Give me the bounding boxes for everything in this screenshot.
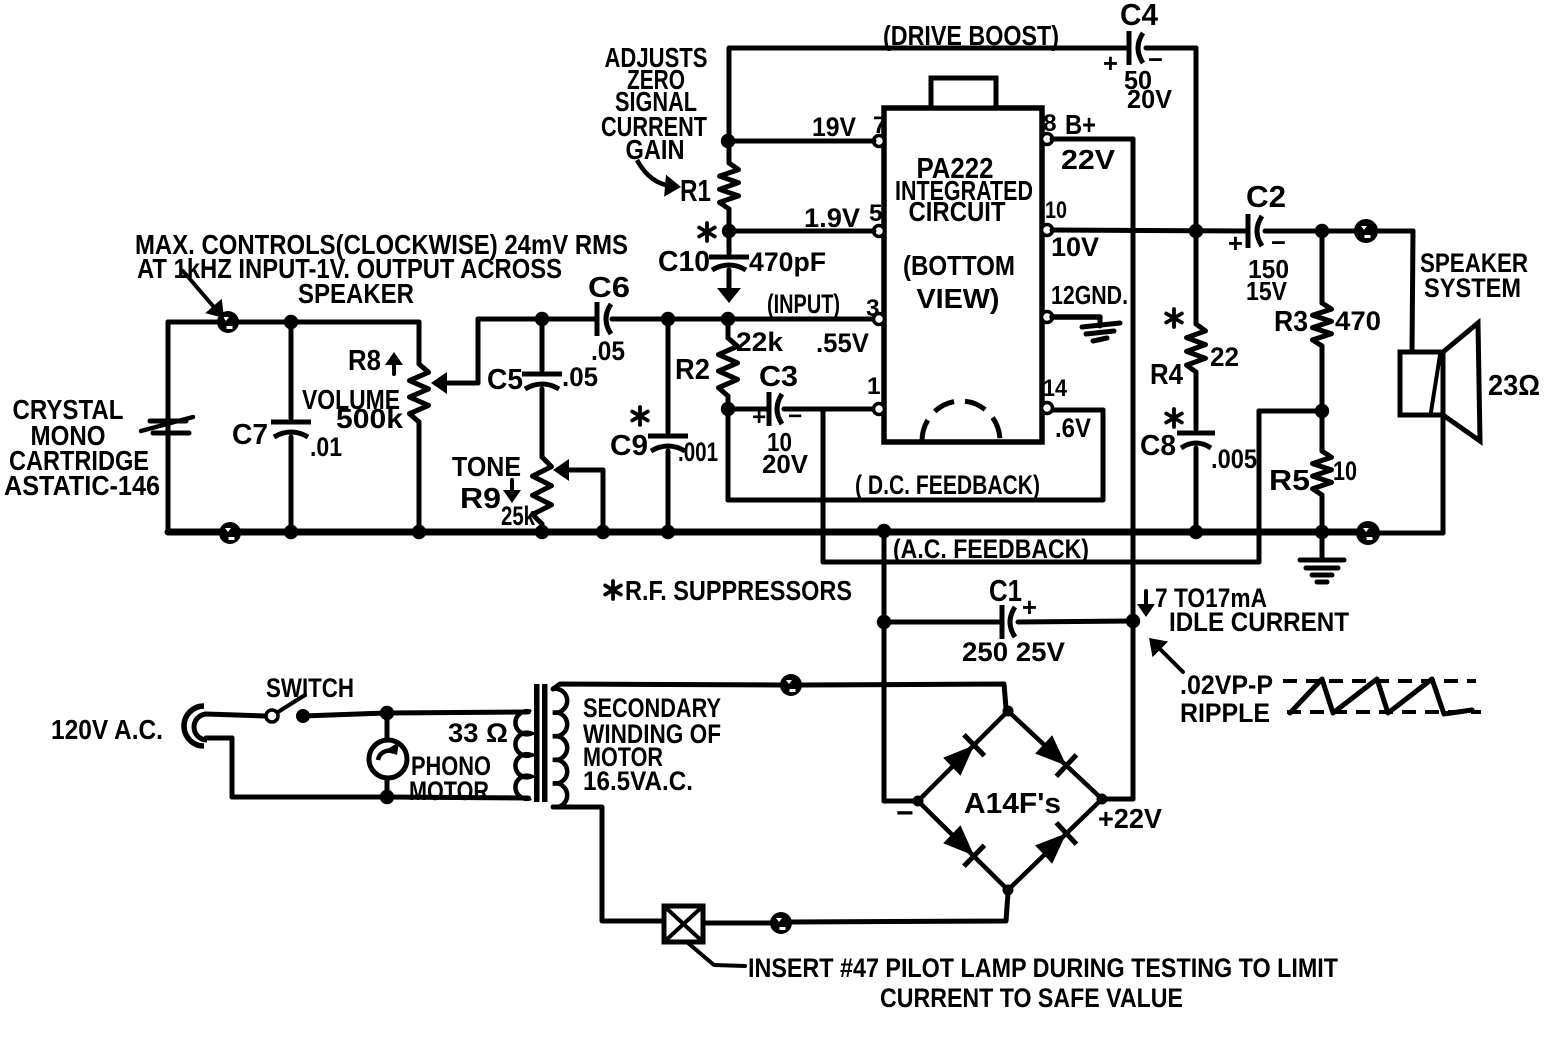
- capacitor C8 .005 (RF suppressor): [1177, 431, 1215, 436]
- svg-text:INSERT #47 PILOT LAMP DURING T: INSERT #47 PILOT LAMP DURING TESTING TO …: [748, 953, 1339, 983]
- capacitor C1 250/25V (series): [884, 620, 999, 625]
- svg-text:.005: .005: [1211, 444, 1257, 474]
- svg-text:10: 10: [1333, 456, 1357, 486]
- wire: bridge plus to B+ vertical: [1102, 797, 1133, 802]
- leader arrow to ripple note: [1155, 644, 1183, 672]
- capacitor C5 .05: [535, 312, 549, 326]
- svg-text:R5: R5: [1269, 465, 1310, 497]
- wire: 19V to pin 7: [728, 139, 874, 144]
- crystal cartridge symbol: [150, 419, 186, 424]
- ground symbol at rail: [1320, 532, 1325, 558]
- diode D3 (left-bottom): [943, 825, 974, 856]
- resistor R2 22k: [726, 319, 731, 338]
- node: C1 right: [1126, 614, 1140, 628]
- capacitor C7: [289, 322, 294, 418]
- resistor R5 10: [1320, 411, 1325, 451]
- potentiometer R9 TONE 25k: [533, 457, 552, 524]
- node: R4/C8 bottom on rail: [1189, 525, 1203, 539]
- svg-text:33 Ω: 33 Ω: [448, 718, 508, 748]
- svg-text:C7: C7: [232, 419, 268, 451]
- svg-text:.001: .001: [678, 437, 718, 467]
- wire: B+ pin 8 right and down to +22V bridge: [1052, 137, 1133, 142]
- svg-text:120V A.C.: 120V A.C.: [51, 714, 163, 745]
- speaker driver and horn: [1400, 352, 1443, 415]
- wire: motor top/bottom stubs: [385, 713, 390, 740]
- wire: bridge minus to left vertical: [884, 799, 918, 804]
- IC bottom index notch (dashed): [922, 401, 1000, 441]
- resistor R3 470: [1320, 231, 1325, 303]
- node: C7 bottom on rail: [284, 525, 298, 539]
- svg-text:C9: C9: [610, 430, 648, 462]
- svg-text:C10: C10: [658, 246, 710, 278]
- node: R1 bottom / 1.9V: [727, 209, 732, 231]
- node: C7 top junction: [284, 315, 298, 329]
- svg-text:.55V: .55V: [816, 328, 869, 358]
- svg-text:SPEAKER: SPEAKER: [298, 278, 414, 309]
- svg-text:C1: C1: [989, 575, 1022, 608]
- bridge corner dots: [1003, 706, 1014, 717]
- svg-text:+: +: [752, 404, 766, 431]
- node: R5 bottom on rail: [1315, 525, 1329, 539]
- svg-text:12GND.: 12GND.: [1051, 282, 1128, 310]
- terminal: speaker return: [1356, 521, 1380, 545]
- svg-text:500k: 500k: [336, 403, 404, 434]
- IC U1 PA222 body: [884, 108, 1042, 442]
- svg-text:C6: C6: [588, 272, 630, 304]
- node: motor top: [380, 706, 394, 720]
- R8 up arrow: [392, 356, 396, 374]
- terminal: AC top: [780, 674, 802, 696]
- svg-text:−: −: [788, 403, 802, 430]
- wire: to speaker: [1378, 229, 1413, 234]
- wire: plug bottom to lower run: [206, 736, 232, 741]
- capacitor C9 .001 (RF suppressor): [661, 312, 675, 326]
- phono motor: [369, 740, 407, 778]
- svg-text:TONE: TONE: [452, 451, 521, 482]
- wire: AC feedback takeoff from pin1 node: [821, 409, 826, 562]
- resistor R1: [720, 163, 739, 209]
- node: drive boost / R1 junction: [721, 134, 735, 148]
- svg-text:8: 8: [1043, 110, 1057, 137]
- svg-text:−: −: [1271, 229, 1286, 257]
- svg-text:.01: .01: [310, 432, 342, 462]
- capacitor C2 150/15V (series): [1246, 214, 1251, 248]
- transformer core: [534, 684, 540, 802]
- curved arrow to R1: [637, 160, 672, 186]
- svg-text:14: 14: [1043, 375, 1067, 402]
- capacitor C10 470pF with arrow to input: [727, 231, 732, 253]
- diode D2 (top-right): [1035, 735, 1066, 765]
- node: rail to bridge minus: [877, 524, 891, 538]
- svg-text:C8: C8: [1140, 430, 1176, 462]
- wire: terminal to bridge bottom: [792, 893, 1008, 922]
- svg-text:15V: 15V: [1246, 278, 1287, 306]
- svg-text:250 25V: 250 25V: [962, 637, 1065, 667]
- wire: 1.9V to pin 5: [729, 229, 874, 234]
- svg-text:23Ω: 23Ω: [1488, 370, 1540, 402]
- terminal: AC bottom: [770, 912, 792, 934]
- svg-text:.05: .05: [562, 362, 598, 392]
- svg-text:16.5VA.C.: 16.5VA.C.: [583, 766, 693, 796]
- wire: left vertical from cartridge top to bottom rail: [166, 322, 171, 532]
- wire: switch to motor node: [303, 713, 387, 716]
- node: input node (R2 / C10 arrow / pin3): [721, 312, 735, 326]
- svg-text:R2: R2: [675, 354, 710, 386]
- svg-text:+22V: +22V: [1098, 803, 1162, 834]
- wire: pin 10 (10V) to C2: [1052, 230, 1246, 231]
- arrow from note to input terminal: [183, 271, 219, 313]
- svg-text:5: 5: [869, 200, 883, 227]
- svg-text:20V: 20V: [1127, 86, 1172, 114]
- R9 down arrow: [510, 480, 514, 498]
- svg-text:22V: 22V: [1061, 144, 1115, 175]
- capacitor C4 50/20V: [1127, 31, 1132, 65]
- capacitor C3 10/20V (series): [728, 407, 766, 412]
- svg-text:470pF: 470pF: [749, 247, 826, 277]
- svg-text:ASTATIC-146: ASTATIC-146: [4, 470, 160, 501]
- svg-text:(BOTTOM: (BOTTOM: [903, 250, 1015, 281]
- wire: secondary top to terminal: [553, 684, 780, 689]
- svg-text:20V: 20V: [762, 451, 808, 479]
- label: idle current: [1144, 591, 1148, 611]
- leader to INSERT note: [688, 943, 745, 966]
- svg-text:GAIN: GAIN: [626, 134, 685, 165]
- svg-text:C5: C5: [487, 364, 523, 396]
- R8 wiper arrow: [444, 381, 478, 386]
- svg-text:SYSTEM: SYSTEM: [1424, 273, 1521, 303]
- svg-text:3: 3: [866, 295, 880, 322]
- wire: signal line from wiper to IC pin 3 (INPUT): [478, 317, 595, 322]
- svg-text:22k: 22k: [736, 327, 783, 357]
- terminal: input ground: [219, 522, 241, 544]
- svg-text:A14F's: A14F's: [964, 788, 1061, 820]
- svg-text:+: +: [1228, 230, 1243, 258]
- wire: terminal to bridge top: [802, 684, 1006, 708]
- wire: secondary bottom to pilot lamp: [553, 807, 662, 921]
- diode D1 (left-top): [943, 745, 974, 776]
- terminal: speaker hot: [1354, 219, 1378, 243]
- svg-text:C3: C3: [759, 361, 798, 393]
- svg-text:10: 10: [1045, 197, 1067, 224]
- wire: wiper riser to signal line: [476, 319, 481, 383]
- wire: C4 right down to 10V node: [1194, 48, 1199, 231]
- node: C2 out / R3 top: [1315, 224, 1329, 238]
- svg-text:7: 7: [873, 112, 887, 139]
- potentiometer R8 VOLUME 500k: [417, 322, 422, 364]
- svg-text:C4: C4: [1120, 0, 1158, 32]
- svg-text:.6V: .6V: [1055, 413, 1091, 443]
- svg-text:10V: 10V: [1051, 232, 1099, 262]
- svg-text:B+: B+: [1065, 109, 1096, 140]
- svg-text:CIRCUIT: CIRCUIT: [909, 196, 1006, 227]
- svg-text:R3: R3: [1274, 306, 1308, 338]
- svg-text:(A.C. FEEDBACK): (A.C. FEEDBACK): [893, 534, 1089, 564]
- svg-text:R1: R1: [680, 175, 711, 208]
- svg-text:+: +: [1022, 594, 1037, 622]
- svg-text:R.F. SUPPRESSORS: R.F. SUPPRESSORS: [625, 575, 852, 606]
- resistor R4 22 (RF suppressor): [1194, 231, 1199, 324]
- pilot lamp box: [664, 906, 703, 942]
- terminal: input hot terminal: [217, 311, 239, 333]
- svg-text:1.9V: 1.9V: [804, 203, 860, 233]
- R9 wiper arrow: [566, 468, 603, 473]
- svg-text:( D.C. FEEDBACK): ( D.C. FEEDBACK): [855, 470, 1040, 500]
- ground at pin 12: [1052, 314, 1100, 320]
- IC top tab: [931, 78, 996, 108]
- svg-text:(DRIVE BOOST): (DRIVE BOOST): [883, 20, 1059, 51]
- wire: input top rail from cartridge to volume pot: [168, 320, 419, 325]
- DC feedback loop: pin1 node down, right, up to pin 14: [726, 409, 731, 500]
- svg-text:MOTOR: MOTOR: [409, 776, 489, 806]
- transformer T1: primary winding: [515, 711, 531, 799]
- svg-text:R8: R8: [348, 345, 381, 377]
- wire: plug to switch: [206, 714, 266, 716]
- svg-text:470: 470: [1335, 306, 1381, 336]
- svg-text:.02VP-P: .02VP-P: [1180, 670, 1273, 700]
- wire: rail down to bridge minus corner: [882, 531, 887, 801]
- svg-text:25k: 25k: [501, 501, 535, 531]
- svg-text:RIPPLE: RIPPLE: [1180, 698, 1270, 728]
- bridge rectifier A14Fs: [918, 711, 1102, 890]
- node: R8 bottom on rail: [412, 525, 426, 539]
- node: R3/R5 junction (AC feedback point): [1315, 404, 1329, 418]
- svg-text:(INPUT): (INPUT): [767, 289, 840, 319]
- wire: speaker return up: [1378, 531, 1443, 536]
- diode D4 (bottom-right): [1035, 833, 1066, 863]
- wire: lamp to terminal: [703, 921, 770, 926]
- label: RF suppressors: [611, 581, 615, 599]
- wire: motor node to transformer primary: [387, 712, 528, 713]
- wire: drive boost line: [727, 48, 732, 163]
- node: R2 bottom / C3 / DC feedback: [721, 402, 735, 416]
- node: motor bottom: [380, 790, 394, 804]
- svg-text:VIEW): VIEW): [917, 283, 1000, 314]
- ripple waveform: [1283, 679, 1476, 683]
- svg-text:SWITCH: SWITCH: [266, 673, 354, 703]
- svg-text:19V: 19V: [812, 112, 856, 142]
- wire: AC feedback bottom run: [823, 560, 1259, 565]
- switch: [266, 710, 278, 722]
- svg-text:CURRENT TO SAFE VALUE: CURRENT TO SAFE VALUE: [880, 983, 1183, 1013]
- node: 10V / C4 / R4: [1189, 224, 1203, 238]
- svg-text:+: +: [1103, 50, 1118, 78]
- IC pins (bubbles): [874, 136, 885, 147]
- svg-text:1: 1: [867, 373, 881, 400]
- main bottom ground rail: [168, 529, 1356, 536]
- svg-text:22: 22: [1210, 342, 1239, 372]
- capacitor C6 .05 (series): [595, 302, 600, 336]
- svg-text:R4: R4: [1150, 359, 1183, 391]
- wire: AC feedback from junction left and down: [1259, 409, 1322, 414]
- svg-text:IDLE CURRENT: IDLE CURRENT: [1169, 607, 1350, 637]
- transformer secondary winding: [553, 689, 567, 807]
- svg-text:C2: C2: [1246, 181, 1286, 214]
- node: C1 left: [877, 615, 891, 629]
- svg-text:R9: R9: [460, 483, 501, 515]
